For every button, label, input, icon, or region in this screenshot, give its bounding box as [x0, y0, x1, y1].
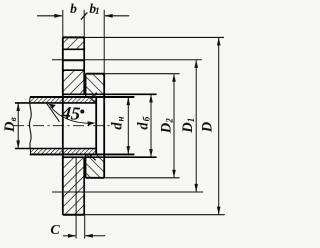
dimension dn line with arrows: [127, 97, 131, 154]
pipe inner bottom line with Dv extension: [15, 148, 96, 150]
svg-text:1: 1: [95, 7, 100, 17]
C extension line left through lower flange: [75, 157, 77, 238]
label b1: [89, 1, 99, 17]
dimension D2 line with arrows: [172, 74, 176, 178]
svg-text:D: D: [158, 122, 174, 134]
svg-text:d: d: [135, 122, 151, 130]
svg-text:b: b: [70, 1, 77, 16]
dimension b-b1 right arrow: [104, 14, 129, 18]
C extension line right below flange: [84, 216, 86, 239]
svg-text:1: 1: [186, 118, 196, 123]
pipe inner top line with Dv extension: [15, 102, 96, 104]
svg-text:2: 2: [164, 118, 174, 124]
45 degree leader right arrowhead: [88, 121, 96, 125]
flange right face lower: [83, 157, 85, 215]
svg-text:C: C: [50, 223, 60, 238]
dimension Dv line with arrows: [16, 103, 20, 149]
ring left face lower: [85, 154, 87, 177]
svg-text:45: 45: [60, 104, 81, 125]
flange upper hatch below bolt hole: [64, 71, 84, 94]
flange lower hatch: [64, 158, 84, 214]
45 degree leader arc: [51, 107, 94, 124]
pipe break wavy line: [29, 96, 31, 155]
svg-text:D: D: [180, 122, 196, 134]
ring right face with b1 extension: [103, 10, 105, 74]
dimension C left arrow: [63, 234, 76, 238]
D1 extension line upper through bolt hole: [52, 59, 202, 61]
svg-text:н: н: [116, 117, 126, 122]
bolt hole bottom edge: [63, 69, 84, 71]
flange upper hatch above bolt hole: [64, 38, 84, 49]
flange left face: [62, 10, 64, 38]
label Dv: [2, 117, 18, 133]
ring top edge with D2 extension: [86, 73, 180, 75]
svg-text:D: D: [199, 121, 215, 133]
label D: [199, 121, 215, 133]
label db: [135, 116, 151, 129]
45 degree leader left arrowhead: [48, 104, 56, 109]
flange bore top edge with db extension: [62, 93, 157, 95]
flange top edge with D extension: [63, 36, 224, 38]
ring bottom edge with D2 extension: [86, 177, 180, 179]
D1 extension line lower: [52, 191, 203, 193]
ring left face upper: [85, 74, 87, 97]
dimension b-b1 left arrow: [37, 14, 63, 18]
centre axis dash-dot: [13, 125, 113, 127]
pipe outer top line with dn extension: [30, 96, 134, 98]
flange right face upper: [83, 10, 85, 38]
45 degree leader straight diagonal: [46, 102, 60, 122]
dimension D1 line with arrows: [194, 60, 198, 192]
ring upper hatch: [86, 74, 103, 96]
bolt hole top edge: [63, 48, 84, 50]
pipe upper wall hatched band: [30, 97, 96, 103]
weld chamfer diagonal upper ring corner: [91, 93, 97, 98]
weld chamfer diagonal across upper pipe wall: [90, 97, 97, 103]
weld chamfer diagonal lower ring corner: [90, 155, 96, 160]
label D1: [180, 118, 196, 134]
pipe end face: [95, 97, 97, 156]
flange bottom edge with D extension: [63, 214, 225, 216]
ring lower hatch: [86, 155, 103, 177]
svg-text:в: в: [8, 117, 18, 121]
dimension b extension slash: [81, 12, 87, 19]
flange bore bottom edge with db extension: [62, 156, 157, 158]
pipe outer bottom line with dn extension: [30, 153, 134, 155]
label D2: [158, 118, 174, 134]
dimension D line with arrows: [217, 37, 221, 214]
dimension C right arrow: [85, 234, 106, 238]
pipe lower wall hatched band: [30, 149, 96, 155]
dimension db line with arrows: [149, 94, 153, 157]
label dn: [110, 117, 126, 130]
svg-text:d: d: [110, 122, 126, 130]
svg-text:б: б: [141, 116, 151, 121]
svg-text:D: D: [2, 121, 18, 133]
